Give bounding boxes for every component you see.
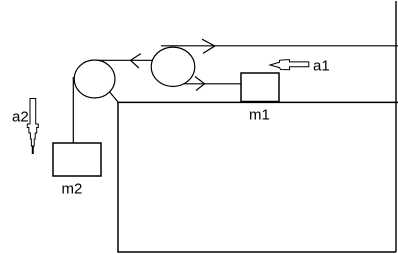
acceleration arrow a1 (hollow, pointing left) [270, 60, 309, 70]
rope B arrowhead left [131, 54, 141, 68]
svg-text:m2: m2 [62, 181, 83, 198]
table bottom [117, 251, 396, 253]
mass m1 block [241, 73, 279, 102]
rope A arrowhead right [202, 39, 215, 53]
mass m2 block [53, 143, 101, 176]
svg-text:m1: m1 [249, 107, 270, 124]
pulley P2 (right) [151, 47, 195, 86]
rope C arrowhead right [195, 77, 205, 91]
wire rope A (top, pulley P2 to wall) [161, 45, 398, 47]
acceleration arrow a2 (hollow, pointing down) [27, 99, 38, 154]
pulley P1 (left) [74, 60, 115, 98]
table left side [117, 102, 119, 252]
wire rope B (between pulleys) [91, 59, 152, 61]
pulley mount bracket [109, 91, 118, 102]
table top surface [117, 101, 398, 103]
svg-text:a2: a2 [12, 109, 29, 126]
wall (right vertical) [395, 1, 397, 252]
wire rope C (pulley P2 to mass m1) [168, 83, 243, 85]
svg-text:a1: a1 [313, 58, 330, 75]
wire hanging rope to m2 [72, 77, 74, 143]
